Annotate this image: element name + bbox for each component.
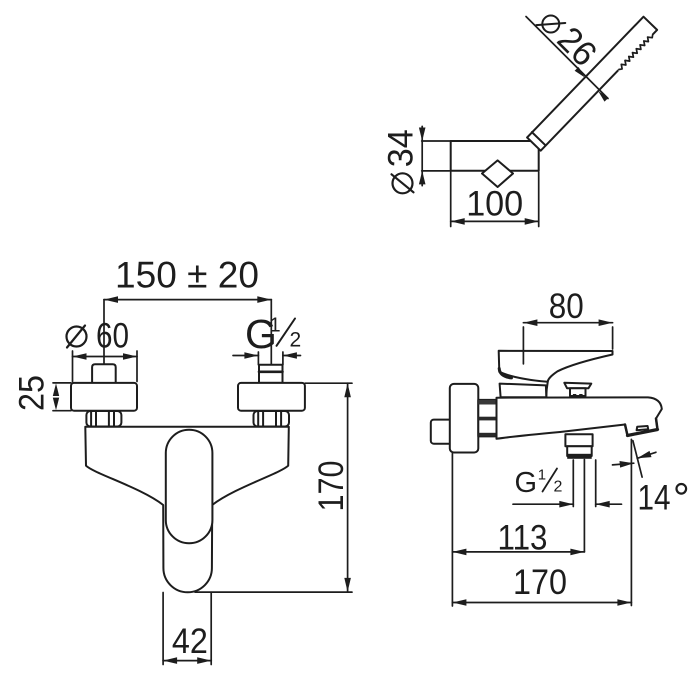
dim 80 line — [523, 323, 612, 364]
svg-text:170: 170 — [312, 461, 351, 512]
outlet centerline — [583, 460, 585, 552]
label G1/2 side — [515, 467, 563, 500]
wall holder bracket — [451, 141, 539, 171]
hand shower grip ribs — [620, 36, 653, 70]
svg-text:34: 34 — [382, 129, 421, 167]
left nut — [86, 411, 121, 427]
dim G1/2 front arrows — [233, 352, 301, 365]
dim 113 line — [452, 454, 584, 607]
dim 170 side line — [452, 602, 631, 604]
left valve body — [71, 383, 137, 411]
label G1/2 front — [245, 311, 301, 357]
mixer body front — [85, 427, 288, 593]
14 deg slanted line — [633, 441, 642, 477]
dim 42 arrows — [163, 657, 177, 664]
right valve body — [238, 383, 305, 411]
cartridge neck curve — [546, 382, 548, 398]
svg-text:2: 2 — [554, 479, 563, 496]
svg-text:1: 1 — [538, 467, 546, 484]
dim 25 double arrow — [53, 383, 59, 396]
lever capsule front — [166, 430, 213, 544]
svg-text:1: 1 — [270, 315, 281, 337]
svg-text:150 ± 20: 150 ± 20 — [115, 255, 259, 296]
svg-text:80: 80 — [549, 287, 584, 326]
wall pipe stub side — [431, 420, 453, 444]
shower outlet side — [565, 434, 592, 459]
mixer body side — [497, 397, 662, 438]
14 deg right arrow — [637, 452, 656, 458]
svg-text:42: 42 — [172, 622, 208, 661]
dim phi34 arrows — [419, 128, 426, 142]
dim 42 extension lines — [163, 593, 211, 665]
svg-text:113: 113 — [498, 519, 548, 558]
hand shower end cap line — [532, 132, 546, 145]
svg-text:14: 14 — [638, 479, 671, 518]
14 deg left arrow — [613, 463, 634, 465]
cartridge collar side — [500, 384, 547, 398]
wall flange side — [450, 384, 479, 453]
lever side — [499, 351, 613, 382]
svg-text:170: 170 — [513, 563, 567, 602]
right valve pipe — [259, 365, 283, 383]
svg-text:60: 60 — [96, 316, 129, 355]
svg-text:G: G — [515, 467, 538, 499]
dim phi26 line — [526, 17, 608, 99]
aerator outline — [625, 419, 658, 436]
aerator nozzle — [637, 426, 649, 430]
lever underside shadow — [499, 369, 511, 378]
svg-text:25: 25 — [12, 375, 51, 411]
dim phi26 arrow upper — [575, 67, 585, 78]
dim G1/2 side arrows — [513, 460, 622, 507]
label 14 deg — [638, 479, 687, 518]
label phi 34 — [382, 129, 421, 193]
dim 170 front arrows — [344, 383, 351, 397]
diverter knob side — [564, 383, 591, 397]
dim 150+-20 line — [104, 300, 271, 365]
dim phi26 arrow lower — [598, 91, 608, 102]
dim 170 front extension — [195, 383, 352, 592]
dim 150+-20 arrows — [104, 296, 118, 303]
dim phi34 extension lines — [422, 126, 451, 185]
dim 113 arrows — [452, 549, 466, 556]
label phi 26 — [532, 2, 604, 74]
dim phi60 line — [73, 351, 138, 382]
dim 170 side arrows — [452, 599, 466, 606]
dim phi60 arrows — [73, 353, 87, 360]
dim 25 extension lines — [53, 383, 71, 411]
hand shower handle rod — [527, 17, 657, 151]
svg-text:100: 100 — [466, 185, 523, 224]
orientation diamond on holder — [482, 160, 513, 187]
label phi 60 — [67, 316, 130, 355]
dim 100 arrows — [451, 218, 465, 225]
14 deg reference vertical / dim 170 right extension — [630, 439, 632, 605]
svg-text:2: 2 — [290, 328, 302, 351]
left valve pipe — [92, 364, 116, 383]
connection nut side — [478, 400, 496, 437]
dim 80 arrows — [523, 319, 537, 326]
dim 100 extension lines — [451, 172, 539, 227]
right nut — [254, 411, 290, 427]
